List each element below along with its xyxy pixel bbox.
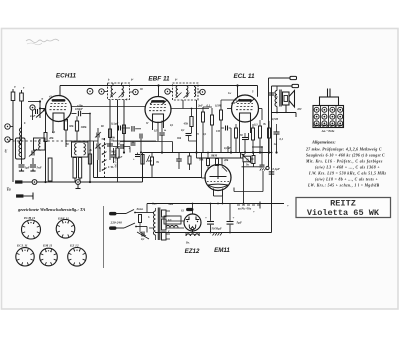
resistor 40k [44, 133, 54, 142]
svg-text:1w: 1w [274, 142, 277, 146]
IF transformer II [173, 83, 199, 100]
trimmer screw [165, 89, 173, 94]
capacitor 0,1uF [111, 122, 130, 131]
trimmer screw right [133, 89, 138, 94]
antenna terminal [11, 89, 15, 182]
connector contacts [314, 107, 343, 126]
wire [147, 203, 284, 205]
notes text [305, 148, 387, 188]
svg-text:40k: 40k [48, 136, 54, 140]
wire [272, 105, 297, 117]
value labels [167, 107, 302, 245]
capacitor 5nF [30, 158, 42, 171]
nameplate REITZ Violetta 65 WK [296, 198, 391, 218]
coil L2 box [16, 138, 26, 159]
tuning capacitor C1 [36, 109, 45, 118]
tube EBF11 label [148, 76, 170, 83]
svg-text:0,5M: 0,5M [272, 118, 278, 121]
wire [104, 92, 133, 153]
capacitor Entst [136, 208, 144, 232]
svg-text:≈10p: ≈10p [77, 105, 83, 108]
svg-text:0,1: 0,1 [280, 138, 284, 141]
mains switch [124, 210, 147, 229]
svg-text:L·TA: L·TA [107, 166, 114, 169]
switch wafer labels [107, 140, 118, 170]
svg-text:Saugkreis 6-10 = 460 kc (296 t: Saugkreis 6-10 = 460 kc (296 t) b saugst… [306, 154, 385, 158]
tube ECL11 [232, 95, 259, 122]
band switch link [102, 138, 107, 178]
resistor if a [109, 129, 112, 138]
svg-text:+: + [253, 210, 255, 214]
loudspeaker [283, 91, 295, 113]
socket ECH11 label [23, 216, 36, 220]
capacitor cathode [242, 133, 248, 153]
capacitor on return [269, 172, 275, 174]
resistor grid leak [268, 121, 271, 153]
capacitor to ground [19, 159, 30, 171]
svg-text:0,1: 0,1 [181, 129, 185, 132]
svg-text:ECH11: ECH11 [56, 73, 77, 80]
svg-text:LW. Krs.: 545 + schzn., 1 l =: LW. Krs.: 545 + schzn., 1 l = Mgd/dB [307, 184, 380, 188]
wire [66, 141, 98, 160]
coil L1 [20, 124, 22, 144]
svg-text:40k: 40k [223, 158, 229, 162]
wave trap [28, 102, 40, 121]
capacitor 10nF [107, 144, 116, 154]
value labels [108, 79, 254, 213]
wire [221, 100, 262, 153]
socket ECL11 [16, 248, 34, 266]
connector base [313, 125, 344, 133]
tube ECH11 [46, 96, 72, 122]
svg-text:a: a [42, 97, 44, 101]
svg-text:2nF: 2nF [117, 156, 123, 159]
svg-text:EM 11: EM 11 [42, 244, 53, 248]
svg-text:2nF: 2nF [230, 102, 236, 105]
svg-text:+: + [287, 204, 289, 208]
resistor 30k [65, 120, 75, 142]
wire [234, 171, 263, 192]
link zu Ph [237, 202, 260, 211]
wire [252, 146, 262, 148]
filter choke [186, 233, 199, 237]
capacitor 0,1 switch [113, 143, 130, 153]
capacitor diode load [159, 121, 167, 153]
svg-text:ECL 11: ECL 11 [233, 73, 255, 80]
svg-text:0,1: 0,1 [141, 238, 145, 241]
value labels [146, 122, 199, 140]
capacitor 1nF [30, 109, 38, 118]
capacitor mid [176, 153, 182, 170]
heater wires [240, 121, 251, 134]
anode wire [72, 106, 146, 108]
resistor 7k [151, 153, 160, 178]
socket EZ12 [68, 247, 87, 266]
resistor if b [123, 125, 126, 134]
wire [242, 164, 263, 167]
svg-text:1M: 1M [148, 159, 153, 163]
svg-text:I.W. Krs. L19 = 530 kHz, C als: I.W. Krs. L19 = 530 kHz, C als 51,5 MHz [308, 172, 387, 176]
resistor 1M [207, 105, 214, 153]
svg-text:30k: 30k [68, 124, 74, 128]
resistor 45k [183, 109, 194, 134]
svg-text:0,1μF: 0,1μF [273, 167, 280, 171]
svg-text:EBF 11: EBF 11 [148, 76, 170, 83]
wire [120, 142, 173, 153]
svg-text:1M: 1M [216, 130, 220, 133]
trimmer screw outer [87, 88, 93, 94]
capacitor 0,1 mains [137, 232, 149, 242]
svg-text:+: + [233, 216, 235, 220]
svg-text:EZ12: EZ12 [185, 248, 200, 255]
coupling loop [48, 158, 52, 181]
capacitor right [181, 129, 192, 141]
tube ECH11 label [56, 73, 77, 80]
svg-text:1w: 1w [228, 92, 231, 95]
wire [94, 141, 202, 178]
wire [39, 107, 47, 183]
svg-text:1nF: 1nF [30, 114, 36, 118]
socket EM11 [40, 248, 58, 266]
tube EBF11 [145, 97, 171, 123]
oscillator coil pack [72, 142, 89, 182]
label Ta [7, 187, 11, 192]
IF transformer I [108, 83, 130, 100]
svg-text:An.···Erde: An.···Erde [321, 129, 335, 133]
capacitor block b [133, 153, 140, 162]
resistor g2 [259, 120, 262, 153]
svg-text:30: 30 [245, 159, 249, 162]
wire [171, 100, 209, 153]
svg-text:5n: 5n [246, 164, 249, 167]
svg-text:0,1: 0,1 [117, 143, 121, 146]
pickup jack [17, 193, 34, 200]
svg-text:1μF: 1μF [25, 166, 30, 170]
resistor em 1M [207, 152, 210, 169]
svg-text:Entst.: Entst. [136, 208, 144, 211]
svg-text:100k: 100k [81, 125, 88, 129]
svg-text:0,3: 0,3 [254, 124, 258, 127]
chassis bus [16, 180, 143, 189]
svg-text:0,1μF: 0,1μF [111, 122, 118, 126]
svg-text:U: U [5, 150, 8, 154]
svg-text:50k: 50k [199, 158, 204, 162]
capacitor block a [129, 142, 136, 151]
label U [5, 150, 8, 154]
earth terminal [20, 90, 24, 160]
tube EM11 [205, 165, 231, 197]
wire [197, 153, 244, 179]
capacitor 2nF [221, 126, 231, 153]
svg-text:ECL 11: ECL 11 [16, 244, 28, 248]
capacitor 2nF series [269, 93, 279, 99]
value labels [199, 102, 278, 162]
svg-text:(a/w) L18 = 8b + ..., C als te: (a/w) L18 = 8b + ..., C als tests + [315, 178, 378, 182]
svg-text:b³: b³ [175, 79, 177, 82]
terminal [266, 166, 280, 171]
svg-text:EZ 12: EZ 12 [69, 244, 79, 248]
wire [110, 134, 156, 161]
svg-text:Mit. Krs. L16 - Prüfetc., C al: Mit. Krs. L16 - Prüfetc., C als farbiges [305, 160, 383, 164]
resistor 0,5M [197, 105, 205, 153]
resistor mid [188, 153, 191, 171]
svg-text:b²: b² [131, 79, 133, 82]
svg-text:100pF: 100pF [75, 107, 83, 111]
power transformer T1 [154, 208, 185, 241]
svg-text:6W: 6W [298, 107, 303, 111]
socket EBF11 [56, 220, 75, 239]
wire [123, 151, 278, 182]
terminal E [5, 124, 13, 129]
node a [39, 97, 44, 110]
resistor below bus [252, 152, 255, 167]
coil L3 box [34, 138, 46, 150]
heater winding box [164, 216, 181, 228]
resistor 100k [75, 116, 87, 141]
heater labels [148, 216, 172, 233]
capacitor to chassis [260, 146, 266, 170]
oscillator trimmers [95, 128, 105, 155]
svg-text:Ta: Ta [7, 187, 11, 192]
wire [203, 100, 221, 107]
connector block [313, 89, 344, 128]
socket EBF11 label [57, 217, 69, 221]
resistor anode [252, 124, 255, 153]
label 220-240 [110, 221, 123, 225]
heater wires [53, 121, 64, 134]
capacitor 2nF switch [111, 148, 123, 163]
svg-text:45k: 45k [183, 122, 189, 126]
electrolytic 50uF a [205, 204, 214, 233]
socket EZ12 label [69, 244, 79, 248]
wire [60, 84, 258, 97]
svg-text:gezeichnete Wellenschalterstel: gezeichnete Wellenschalterstellg.: TA [17, 207, 85, 212]
capacitor tone [274, 124, 284, 153]
svg-text:41: 41 [48, 96, 52, 99]
resistor 50k [111, 136, 120, 183]
svg-text:0,5M: 0,5M [215, 105, 221, 108]
output transformer [275, 87, 281, 113]
resistor em 2 [211, 155, 219, 166]
trimmer screw left [99, 89, 104, 94]
svg-text:AnL·PoKL·280k: AnL·PoKL·280k [115, 149, 118, 169]
cathode resistor [235, 124, 240, 153]
wire [155, 232, 272, 234]
capacitor 100pF [29, 149, 37, 157]
svg-text:Violetta 65 WK: Violetta 65 WK [307, 208, 380, 218]
heater wires [153, 122, 164, 142]
socket ECL11 label [16, 244, 28, 248]
wire [147, 204, 154, 233]
svg-text:1M: 1M [213, 154, 217, 158]
label 5uF [237, 221, 243, 225]
TA terminal 2 [272, 84, 299, 232]
socket chart heading [17, 207, 85, 212]
svg-text:+: + [205, 216, 207, 220]
socket ECH11 [22, 220, 41, 239]
socket EM11 label [42, 244, 53, 248]
svg-text:EM11: EM11 [214, 247, 230, 254]
svg-text:220-240: 220-240 [110, 221, 123, 225]
mains plug [110, 212, 127, 229]
ganged tuning link [8, 140, 90, 142]
electrolytic 50uF b [212, 204, 235, 236]
svg-text:TK: TK [111, 140, 115, 143]
tube ECL11 label [233, 73, 255, 80]
trimmer screw [198, 89, 205, 94]
potentiometer Rgl [241, 153, 254, 164]
resistor R osc [88, 154, 91, 164]
svg-text:Dr.: Dr. [185, 242, 190, 245]
svg-text:27 mkw. Prüfanlage: 4,3,2,6 Me: 27 mkw. Prüfanlage: 4,3,2,6 Meßzweig C [305, 148, 382, 152]
wire [208, 146, 231, 165]
svg-text:50/50μF: 50/50μF [212, 227, 222, 231]
svg-text:+: + [133, 158, 135, 162]
notes heading [311, 140, 336, 145]
svg-text:5nF: 5nF [37, 166, 42, 170]
svg-text:Netz: Netz [167, 203, 174, 206]
svg-text:(a/w) L3 = 468 + ..., C als 13: (a/w) L3 = 468 + ..., C als 1368 + [315, 166, 380, 170]
rectifier EZ12 label [185, 248, 200, 255]
value labels [14, 85, 143, 153]
terminal A [5, 137, 13, 142]
wire [214, 196, 224, 204]
tube EM11 label [214, 247, 230, 254]
mains divider line [103, 206, 105, 268]
svg-text:0,1μF: 0,1μF [224, 147, 231, 150]
wire [89, 113, 91, 183]
svg-text:ECH 11: ECH 11 [23, 216, 36, 220]
TA terminal 1 [269, 76, 297, 166]
svg-text:Cax: Cax [152, 203, 157, 206]
svg-text:Allgemeines:: Allgemeines: [311, 140, 336, 145]
svg-text:5μF: 5μF [237, 221, 243, 225]
capacitor det [132, 126, 141, 132]
svg-text:2nF: 2nF [197, 105, 203, 108]
volume potentiometer [141, 155, 152, 183]
wire [243, 162, 245, 205]
resistor 0,3M [215, 104, 223, 153]
capacitor 100pF grid [72, 105, 91, 117]
rectifier EZ12 [184, 203, 201, 233]
svg-text:30k: 30k [176, 137, 182, 140]
pencil note [26, 39, 59, 45]
svg-text:Gl: Gl [181, 210, 184, 213]
svg-text:zu Ph.+50a: zu Ph.+50a [237, 208, 252, 211]
